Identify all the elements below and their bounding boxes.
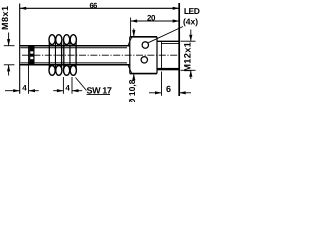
sensing tip end line: [28, 45, 30, 94]
dimension 6 line and arrows: [149, 91, 191, 94]
M8 extension edge lines: [4, 46, 15, 65]
LED window 1: [142, 42, 148, 48]
dimension 20 line: [131, 19, 180, 22]
dimension 66 extension line left (sensing face): [19, 4, 21, 94]
dimension 6 extension line: [161, 72, 163, 96]
svg-text:LED: LED: [184, 6, 200, 16]
svg-text:66: 66: [90, 1, 98, 10]
M12x1 dimension bottom arrow: [189, 70, 192, 79]
svg-text:M12x1: M12x1: [183, 42, 193, 72]
svg-text:SW 17: SW 17: [87, 85, 112, 95]
svg-text:M8x1: M8x1: [0, 5, 10, 30]
SW 17 leader line: [76, 78, 87, 91]
seal washer dark band: [30, 46, 34, 65]
LED leader line: [148, 27, 183, 43]
diameter 10,8 dimension top arrow: [132, 29, 135, 37]
dimension 20 extension line: [130, 18, 132, 37]
LED window 2: [141, 57, 147, 63]
svg-text:6: 6: [166, 84, 171, 94]
svg-text:20: 20: [147, 13, 156, 22]
LED (4x) label: [183, 6, 200, 26]
SW 17 underline: [87, 94, 111, 96]
dimension 4 tip: dimension line and arrows: [5, 89, 39, 92]
diameter 10,8 dimension bottom arrow: [132, 74, 135, 81]
M12 extension edge lines: [181, 41, 196, 70]
hex nut 2: [64, 35, 77, 76]
M8 diameter dimension line top arrow: [7, 33, 10, 46]
M8 diameter dimension line bottom arrow: [7, 65, 10, 76]
LED housing sleeve: [130, 37, 157, 74]
housing step chamfer: [128, 37, 132, 73]
svg-text:4: 4: [22, 83, 27, 92]
hex nut 1: [49, 35, 62, 76]
centerline: [22, 54, 181, 56]
sensor barrel M8 threaded body: [20, 46, 130, 65]
svg-text:4: 4: [65, 84, 70, 93]
dimension 66 line: [20, 7, 180, 10]
M12x1 dimension top arrow: [189, 30, 192, 42]
svg-text:Ø 10,8: Ø 10,8: [127, 79, 137, 102]
svg-text:(4x): (4x): [183, 16, 198, 26]
dimension 4 nut: dimension line and arrows: [53, 89, 82, 92]
M12 connector thread: [157, 41, 179, 70]
dimension 4 nut: extension lines: [63, 77, 72, 94]
dimension 66 extension line right: [178, 3, 180, 96]
